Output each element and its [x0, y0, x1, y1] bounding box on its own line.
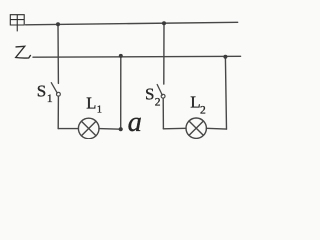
- wire right vertical up to yi: [225, 57, 226, 129]
- lamp L1 circle: [78, 118, 99, 139]
- junction dot node a: [119, 127, 123, 131]
- wire lamp L1 to node a: [99, 128, 121, 131]
- lamp L2 circle: [186, 118, 206, 138]
- wire bottom to lamp L2: [163, 127, 186, 130]
- lamp L2 cross: [189, 121, 203, 135]
- wire bus jia (top horizontal): [26, 22, 238, 25]
- lamp L1 cross: [81, 121, 96, 136]
- switch S1 blade: [51, 83, 57, 93]
- junction dot on yi at node-a vertical: [119, 54, 123, 58]
- svg-text:1: 1: [97, 105, 102, 116]
- label jia (Chinese character): [10, 15, 24, 32]
- wire left branch vertical from jia to S1: [57, 24, 59, 83]
- junction dot on yi at right vertical: [223, 55, 227, 59]
- wire lamp L2 to right vertical: [206, 127, 226, 130]
- svg-text:1: 1: [47, 93, 53, 105]
- svg-text:S: S: [145, 85, 154, 104]
- junction dot on jia at left vertical: [56, 22, 60, 26]
- wire S2 to bottom: [162, 98, 164, 129]
- svg-text:S: S: [37, 82, 46, 101]
- switch S2 pivot circle: [161, 94, 165, 98]
- svg-text:2: 2: [200, 105, 206, 117]
- label yi (Chinese character): [16, 46, 31, 58]
- wire bottom left to lamp L1: [58, 128, 78, 130]
- switch S2 blade: [157, 85, 162, 96]
- switch S1 pivot circle: [57, 92, 61, 96]
- svg-text:a: a: [128, 107, 142, 138]
- junction dot on jia at right vertical: [162, 21, 166, 25]
- wire bus yi (second horizontal): [33, 55, 241, 58]
- wire node a vertical up to yi: [120, 56, 122, 129]
- svg-text:L: L: [86, 94, 96, 113]
- wire S1 to bottom corner: [57, 96, 59, 129]
- svg-text:2: 2: [155, 97, 161, 109]
- wire right branch vertical from jia to S2: [163, 23, 165, 84]
